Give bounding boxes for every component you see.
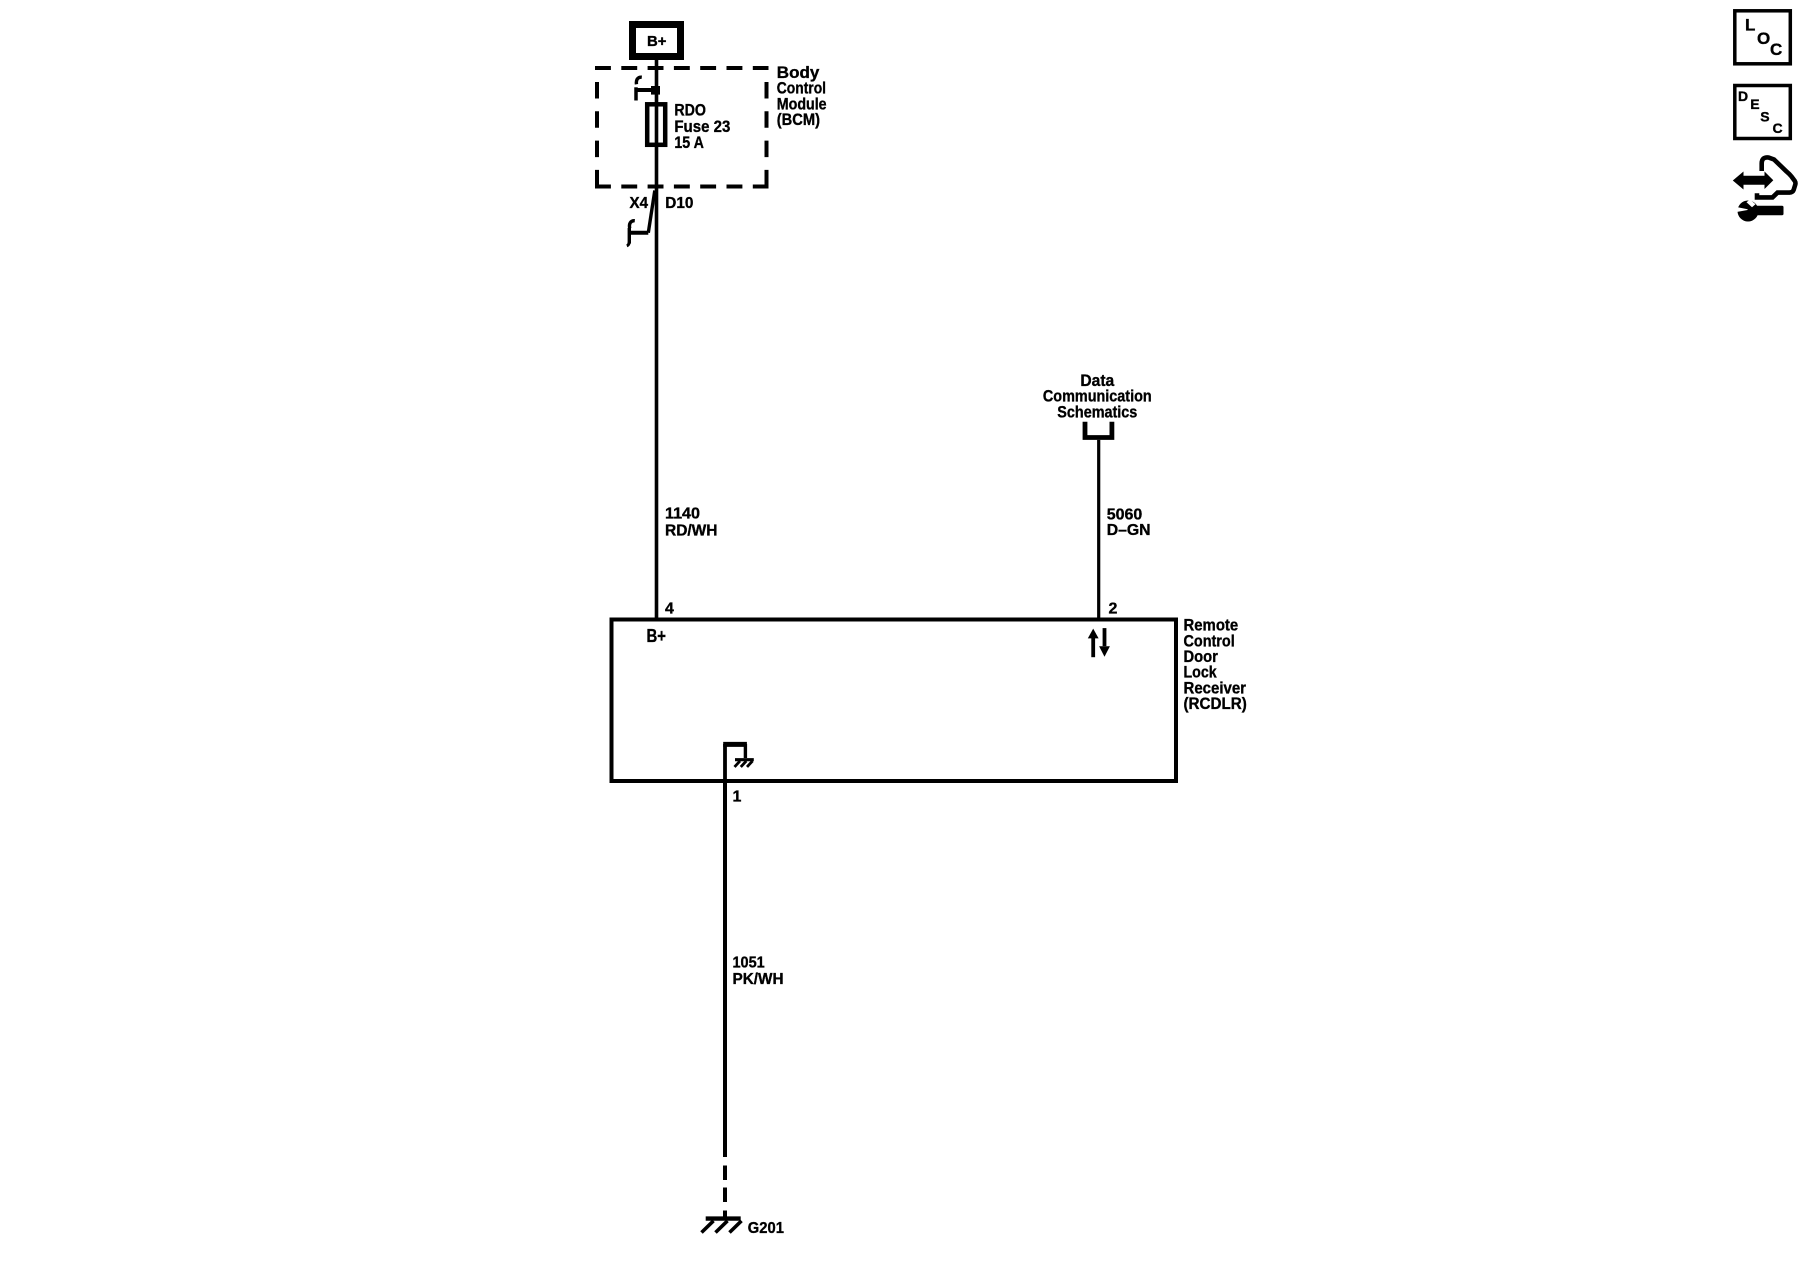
svg-text:S: S [1760, 109, 1769, 125]
svg-text:B+: B+ [647, 626, 667, 646]
label: Data Communication Schematics (off-page reference) [1043, 371, 1152, 422]
svg-text:L: L [1745, 16, 1755, 35]
svg-text:O: O [1757, 29, 1770, 48]
serial data bidirectional arrows at pin 2 [1088, 628, 1110, 657]
connector terminal hook below X4/D10 [627, 221, 649, 246]
wire: dashed segment to ground [723, 1166, 727, 1217]
service icon: component outline shape [1757, 157, 1795, 197]
svg-text:G201: G201 [748, 1220, 784, 1237]
in-line connector slash X4/D10 [648, 191, 655, 233]
module BCM dashed outline [595, 68, 769, 187]
svg-text:D–GN: D–GN [1107, 522, 1151, 539]
connector terminal hook inside BCM [635, 77, 657, 100]
svg-text:PK/WH: PK/WH [733, 971, 784, 988]
svg-text:1140: 1140 [665, 506, 700, 523]
svg-text:C: C [1770, 40, 1782, 59]
wire: RCDLR pin 1 to ground G201 [723, 781, 727, 1157]
svg-text:(BCM): (BCM) [777, 110, 820, 129]
ground G201 chassis ground symbol [702, 1219, 742, 1233]
label: circuit 1140 RD/WH [665, 506, 718, 540]
svg-text:2: 2 [1109, 600, 1118, 617]
label: RDO Fuse 23 15 A [674, 100, 730, 152]
label: circuit 1051 PK/WH [733, 954, 784, 988]
off-page connector bracket [1085, 422, 1112, 438]
fuse RDO Fuse 23 15 A [647, 104, 665, 145]
power symbol B+ (battery feed box) [633, 25, 681, 57]
svg-text:Schematics: Schematics [1057, 403, 1137, 422]
junction: hook to B+ wire [651, 86, 660, 95]
svg-text:B+: B+ [647, 33, 667, 50]
svg-text:1: 1 [733, 789, 742, 806]
svg-text:D10: D10 [665, 195, 693, 212]
navigation thumbnail DESC [1735, 86, 1791, 139]
svg-text:1051: 1051 [733, 954, 765, 971]
label: circuit 5060 D-GN [1107, 507, 1151, 540]
label: Body Control Module (BCM) [777, 63, 827, 129]
svg-text:4: 4 [665, 600, 674, 617]
internal chassis ground symbol inside RCDLR [723, 744, 754, 781]
svg-text:5060: 5060 [1107, 507, 1143, 524]
navigation thumbnail LOC [1735, 11, 1791, 64]
svg-text:E: E [1750, 96, 1759, 112]
service icon: wrench [1737, 200, 1784, 222]
svg-text:15 A: 15 A [674, 133, 704, 152]
label: Remote Control Door Lock Receiver (RCDLR) [1184, 616, 1247, 714]
wire: serial data to RCDLR pin 2 [1097, 440, 1100, 620]
svg-text:X4: X4 [630, 195, 649, 212]
svg-text:D: D [1738, 88, 1748, 104]
wire: B+ feed through fuse down to RCDLR pin 4 [655, 59, 659, 620]
svg-text:C: C [1773, 120, 1783, 136]
svg-text:RD/WH: RD/WH [665, 522, 718, 539]
svg-text:(RCDLR): (RCDLR) [1184, 694, 1247, 713]
service icon: double-headed arrow [1733, 172, 1774, 190]
component box: Remote Control Door Lock Receiver [612, 620, 1177, 782]
